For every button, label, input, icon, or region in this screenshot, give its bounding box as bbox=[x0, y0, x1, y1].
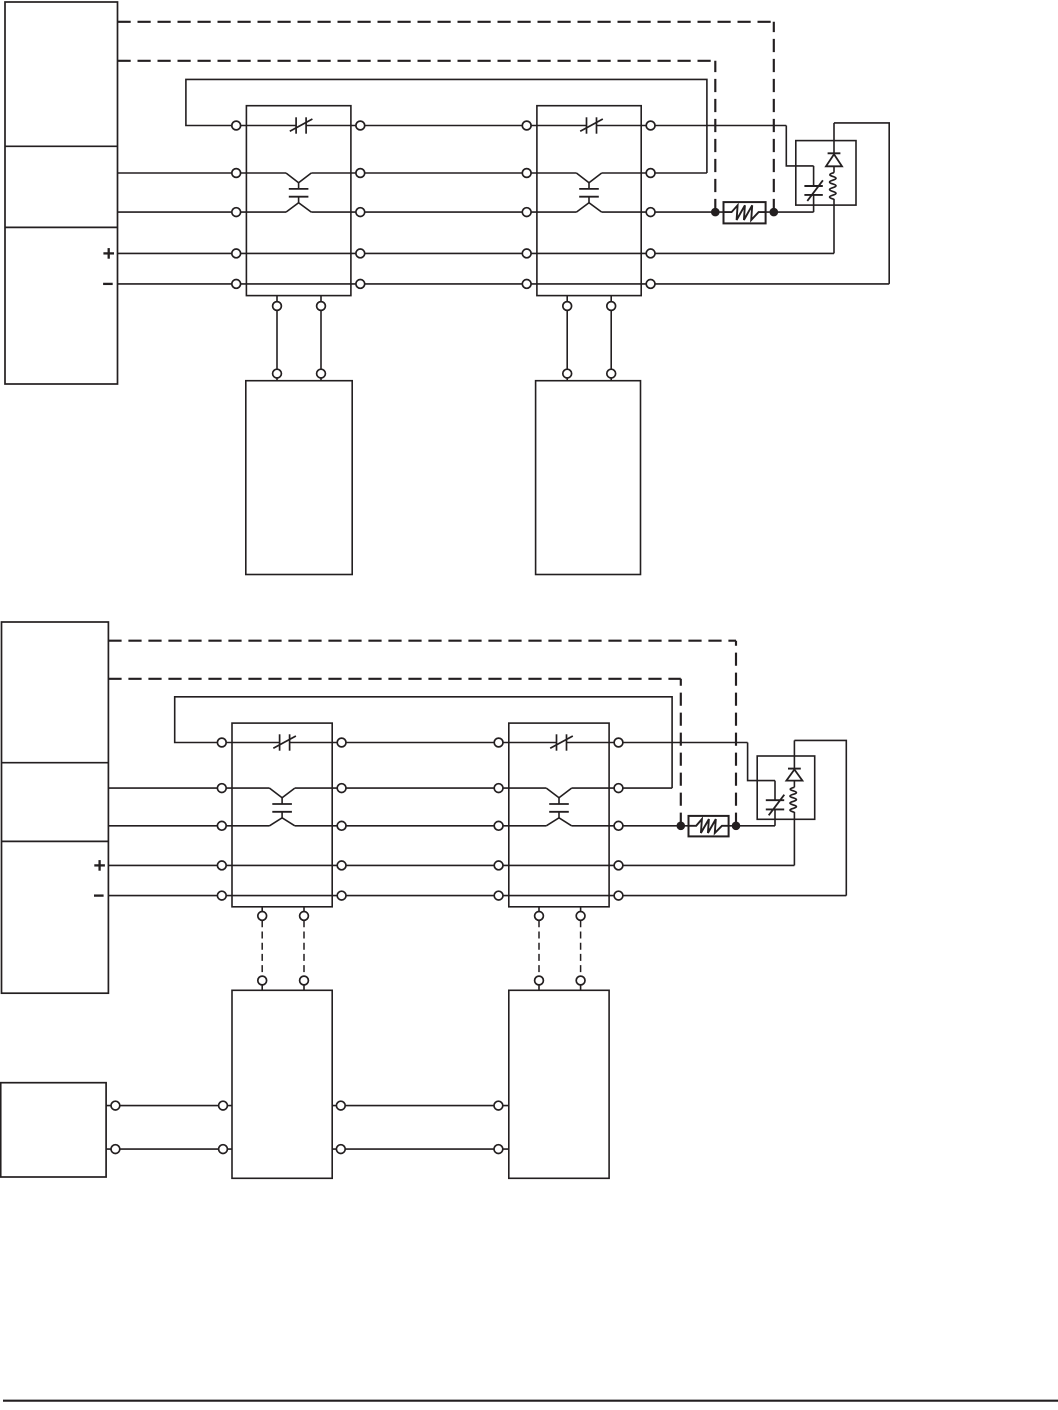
peripheral box B bbox=[1, 1083, 106, 1177]
terminating resistor A bbox=[724, 202, 766, 223]
module slot divider B1 bbox=[2, 762, 109, 764]
wire row3 B bbox=[108, 825, 775, 827]
junction dot B left bbox=[677, 822, 686, 831]
twisted-pair capacitor symbol B1 bbox=[270, 788, 295, 826]
wire row3 A bbox=[118, 211, 814, 213]
PLC CPU/master station box A bbox=[5, 2, 118, 384]
terminals module B1 bbox=[217, 738, 346, 900]
label minus 24G B bbox=[94, 894, 104, 896]
wire row4 B bbox=[108, 864, 794, 866]
label plus 24V A bbox=[103, 248, 114, 259]
link module box B1 bbox=[232, 723, 332, 907]
junction dot B right bbox=[732, 822, 741, 831]
link module box A1 bbox=[246, 106, 351, 296]
arrester B bbox=[766, 781, 785, 826]
wire diode top loop A bbox=[834, 123, 889, 284]
wire row5 B bbox=[108, 895, 846, 897]
junction dot A left bbox=[711, 208, 720, 217]
wire remote B1 to remote B2 row1 bbox=[332, 1105, 509, 1107]
dashed wire SLD A bbox=[118, 22, 774, 212]
shield capacitor symbol B1 bbox=[273, 734, 296, 750]
dashed wire FG A bbox=[118, 61, 716, 212]
drop wires module B2 bbox=[535, 907, 585, 991]
wire row2 B bbox=[108, 787, 672, 789]
surge suppressor box A bbox=[796, 141, 856, 206]
module slot divider B2 bbox=[2, 840, 109, 842]
wire diode top loop B bbox=[794, 740, 846, 895]
inductor B bbox=[790, 787, 796, 865]
dashed wire FG B bbox=[108, 679, 680, 826]
link module box B2 bbox=[509, 723, 609, 907]
label plus 24V B bbox=[94, 860, 105, 871]
terminals module A1 bbox=[232, 121, 365, 288]
module slot divider A2 bbox=[5, 226, 118, 228]
terminating resistor B bbox=[689, 816, 729, 837]
wire row1 B bbox=[222, 742, 748, 744]
shield capacitor symbol B2 bbox=[550, 734, 573, 750]
arrester A bbox=[804, 166, 823, 212]
wire peripheral to remote B1 row1 bbox=[106, 1105, 232, 1107]
remote unit box A2 bbox=[536, 381, 641, 575]
PLC CPU/master station box B bbox=[2, 622, 109, 993]
junction dot A right bbox=[770, 208, 779, 217]
wire peripheral to remote B1 row2 bbox=[106, 1148, 232, 1150]
shield capacitor symbol A2 bbox=[580, 117, 603, 133]
terminals interconnect B bbox=[111, 1101, 503, 1153]
twisted-pair capacitor symbol B2 bbox=[546, 788, 571, 826]
shield capacitor symbol A1 bbox=[290, 117, 313, 133]
surge suppressor box B bbox=[757, 756, 815, 819]
twisted-pair capacitor symbol A2 bbox=[576, 173, 601, 212]
drop wires module A1 bbox=[273, 296, 326, 381]
module slot divider A1 bbox=[5, 145, 118, 147]
remote unit box A1 bbox=[246, 381, 352, 575]
wire SLD to arrester A bbox=[786, 126, 813, 166]
wire SLD to arrester B bbox=[748, 743, 775, 781]
wire RDA loop A bbox=[186, 79, 707, 173]
diode B bbox=[786, 740, 802, 787]
link module box A2 bbox=[537, 106, 641, 296]
wire remote B1 to remote B2 row2 bbox=[332, 1148, 509, 1150]
remote unit box B2 bbox=[509, 990, 609, 1178]
footer rule bbox=[3, 1400, 1058, 1402]
label minus 24G A bbox=[103, 283, 113, 285]
dashed wire SLD B bbox=[108, 641, 736, 826]
wire row5 A bbox=[118, 283, 890, 285]
terminals module B2 bbox=[494, 738, 623, 900]
inductor A bbox=[830, 173, 836, 254]
drop wires module B1 bbox=[258, 907, 309, 991]
drop wires module A2 bbox=[563, 296, 616, 381]
wire row4 A bbox=[118, 252, 835, 254]
wire row2 A bbox=[118, 172, 707, 174]
diode A bbox=[826, 123, 842, 173]
wire RDA loop B bbox=[175, 697, 672, 788]
wire row1 A bbox=[236, 125, 786, 127]
twisted-pair capacitor symbol A1 bbox=[286, 173, 311, 212]
remote unit box B1 bbox=[232, 990, 332, 1178]
terminals module A2 bbox=[522, 121, 655, 288]
